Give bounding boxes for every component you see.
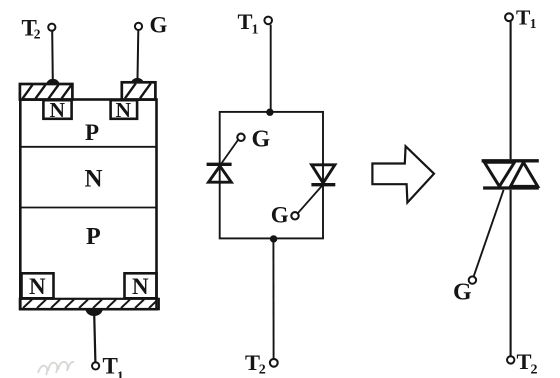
label T2 (right bottom terminal label) [517,349,538,378]
svg-text:N: N [29,274,46,299]
svg-text:T: T [245,350,260,375]
label T2 (middle bottom terminal label) [245,350,266,378]
contact dome G [131,78,143,83]
terminal G (right gate circle) [469,276,476,283]
terminal T1 (open circle, bottom-left) [92,362,99,369]
terminal G (open circle, top-right) [135,23,142,30]
thyristor V2 (right, pointing down) [311,165,335,185]
svg-text:N: N [116,98,132,122]
contact dome T1 (bottom, inverted) [86,309,103,316]
N well top-left [43,98,71,122]
electrode MT1 hatched bar (bottom) [20,299,159,309]
wire triac to T2 [510,190,512,356]
thyristor V1 (left, pointing up) [207,164,232,182]
node bottom (junction dot) [270,235,277,242]
wire T2 lead [51,31,54,80]
terminal G (middle-right gate circle) [291,212,298,219]
loop rectangle [220,112,323,238]
svg-text:2: 2 [531,363,538,378]
terminal T1 (open circle, right top) [505,13,513,21]
wire from T1 to loop [270,25,272,112]
label T1 (right top terminal label) [516,6,537,32]
terminal T2 (open circle, top-left) [48,24,55,31]
N well top-right [111,98,138,122]
triac symbol [482,161,539,188]
label T2 (top-left terminal label) [22,16,41,42]
terminal T1 (open circle, middle top) [264,17,272,25]
svg-text:1: 1 [252,23,259,38]
svg-text:T: T [516,6,531,30]
label T1 (bottom-left terminal label) [103,354,124,378]
wire gate V2 [298,186,322,213]
arrow (block arrow pointing right) [372,146,434,202]
svg-text:G: G [252,127,271,153]
wire gate triac [474,190,504,277]
electrode MT2 hatched bar (top-left) [20,84,73,100]
wire T1 to triac [510,21,512,159]
svg-text:1: 1 [117,370,124,378]
svg-text:G: G [150,13,168,38]
svg-text:N: N [85,166,103,193]
semiconductor body outline [20,100,156,310]
svg-text:1: 1 [530,16,537,31]
svg-text:P: P [85,120,99,145]
svg-text:T: T [238,9,253,34]
gate electrode hatched bar (top-right) [122,82,156,99]
watermark squiggle (faint) [38,362,74,375]
svg-text:P: P [86,224,101,250]
terminal T2 (open circle, middle bottom) [270,359,278,367]
terminal T2 (open circle, right bottom) [507,356,514,363]
svg-text:G: G [453,280,472,306]
wire from loop to T2 [272,239,274,359]
wire gate V1 [222,140,238,163]
svg-text:N: N [132,274,149,299]
junction line P/N [20,146,157,148]
svg-text:T: T [517,349,532,374]
wire T1 lead (bottom) [94,314,95,362]
svg-text:2: 2 [34,27,41,42]
terminal G (middle-left gate circle) [237,134,244,141]
N well bottom-left [22,273,54,299]
label T1 (middle top terminal label) [238,9,259,38]
svg-text:T: T [103,354,118,378]
junction line N/P [20,207,157,209]
svg-text:G: G [271,203,289,228]
N well bottom-right [125,273,157,299]
svg-text:N: N [50,98,66,122]
node top (junction dot) [266,109,273,116]
svg-text:2: 2 [259,363,266,378]
wire G lead [137,30,140,79]
contact dome T2 [46,79,59,85]
